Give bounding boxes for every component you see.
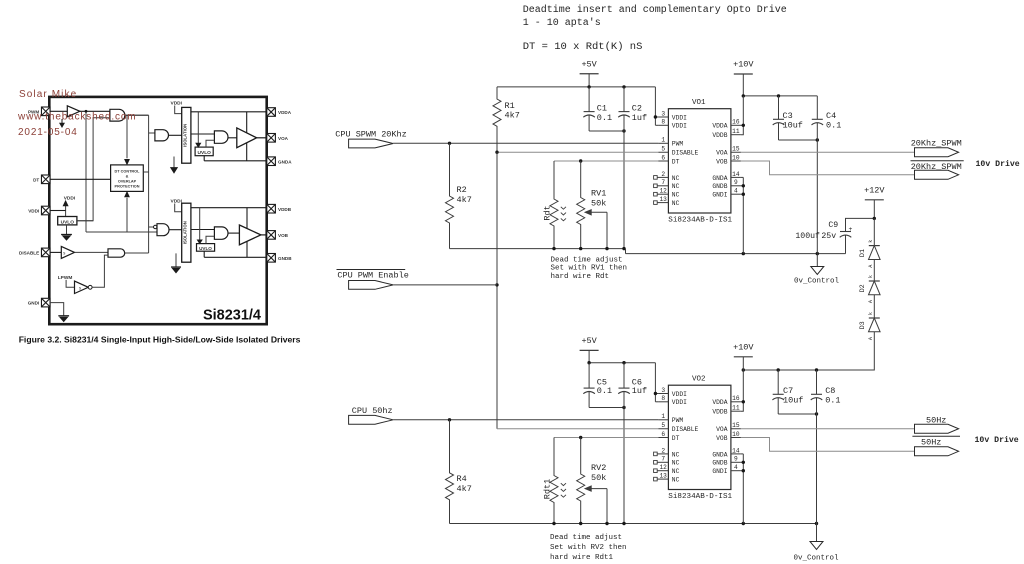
svg-text:Dead time adjust: Dead time adjust [550, 534, 622, 542]
svg-text:VDDA: VDDA [712, 123, 727, 130]
svg-text:VDDA: VDDA [278, 110, 292, 115]
gate B2 AND [214, 227, 239, 239]
wire VOB to output tag lower [741, 438, 915, 452]
inverter LPWM [66, 280, 92, 294]
wire D3 to +10V rail lower [742, 332, 875, 372]
wire UVLO B to gate B2 [206, 236, 214, 243]
svg-text:4k7: 4k7 [457, 484, 472, 494]
wire +12V to C9 [846, 217, 877, 228]
capacitor C6 1uf [618, 363, 647, 524]
svg-text:12: 12 [659, 188, 667, 195]
capacitor C7 10uf [772, 370, 803, 414]
note dead time adjust upper [551, 256, 628, 281]
svg-text:C9: C9 [828, 221, 838, 230]
svg-text:6: 6 [661, 431, 665, 438]
pin GNDA (figure right) [267, 157, 292, 166]
svg-text:NC: NC [672, 192, 680, 199]
wire CPU 50hz to PWM pin 1 lower [393, 418, 658, 421]
arrow into DT box top [125, 115, 130, 164]
resistor Rdt (dead time) [543, 161, 566, 249]
wire C8 to ground symbol lower [816, 524, 818, 542]
svg-text:DISABLE: DISABLE [19, 251, 39, 256]
svg-text:0.1: 0.1 [597, 113, 612, 123]
svg-text:VDDI: VDDI [672, 391, 687, 398]
svg-text:10: 10 [732, 154, 740, 161]
wire enable gate output [125, 252, 149, 254]
wire vertical bus to gates [149, 115, 155, 253]
svg-text:VDDB: VDDB [712, 132, 727, 139]
pin DISABLE (figure left) [19, 248, 50, 257]
svg-text:GNDB: GNDB [278, 256, 292, 261]
svg-text:D2: D2 [859, 284, 867, 292]
svg-text:2: 2 [661, 447, 665, 454]
svg-text:NC: NC [672, 460, 680, 467]
wire C1 bottom to C2 [589, 129, 626, 132]
datasheet figure Si8231/4 outer box [49, 97, 266, 324]
wire UVLO A to gate A2 [206, 140, 214, 147]
wire GNDB lower channel [204, 251, 267, 257]
pin PWM (figure left) [28, 107, 50, 116]
pin VDDA (figure right) [267, 108, 292, 117]
gate G2 enable AND [108, 249, 125, 257]
arrow rail to UVLO B [197, 208, 202, 244]
capacitor C4 0.1 [812, 96, 842, 254]
potentiometer RV1 50k [577, 161, 607, 249]
wire CPU PWM Enable to vertical [393, 284, 497, 286]
ground 0v_Control lower [793, 542, 839, 563]
UVLO box B [197, 244, 215, 252]
pin VOA (figure right) [267, 134, 289, 143]
ground symbol lower channel [171, 253, 181, 273]
net label CPU SPWM 20Khz [335, 129, 406, 148]
svg-text:Si8234AB-D-IS1: Si8234AB-D-IS1 [668, 493, 732, 501]
svg-text:hard wire Rdt1: hard wire Rdt1 [550, 554, 614, 562]
ground 0v_Control upper [794, 267, 840, 286]
label 10v Drive upper [976, 159, 1020, 169]
svg-text:hard wire Rdt: hard wire Rdt [551, 273, 610, 281]
capacitor C1 0.1 [583, 87, 612, 131]
svg-text:RV1: RV1 [591, 189, 606, 199]
svg-text:VDDI: VDDI [672, 399, 687, 406]
svg-text:GNDI: GNDI [28, 301, 39, 306]
svg-text:GNDI: GNDI [712, 468, 727, 475]
power +12V [864, 186, 885, 219]
isolation block A [182, 107, 191, 163]
wire C4 to ground symbol [816, 254, 818, 267]
svg-text:DT: DT [672, 435, 680, 442]
svg-text:0.1: 0.1 [597, 386, 612, 396]
svg-text:NC: NC [672, 477, 680, 484]
ground symbol GNDI [58, 316, 69, 322]
diode D1 [859, 218, 880, 267]
svg-text:D3: D3 [859, 321, 867, 329]
UVLO box A [195, 147, 213, 156]
svg-text:VOA: VOA [278, 136, 289, 141]
svg-text:NC: NC [672, 451, 680, 458]
arrow rail to UVLO A [196, 112, 201, 147]
svg-text:VDDB: VDDB [278, 207, 292, 212]
buffer U-in (PWM input) [67, 106, 80, 117]
svg-text:16: 16 [732, 395, 740, 402]
label VDDI lower channel [171, 198, 183, 211]
isolation block B [182, 203, 191, 262]
svg-text:0v_Control: 0v_Control [794, 277, 840, 285]
net label CPU PWM Enable [337, 270, 409, 290]
svg-text:Set with RV2 then: Set with RV2 then [550, 544, 627, 552]
svg-text:0v_Control: 0v_Control [793, 554, 839, 562]
gate B1 input AND with bubble [154, 224, 182, 236]
svg-text:5: 5 [661, 422, 665, 429]
DT control box [111, 165, 144, 192]
svg-text:VDDI: VDDI [28, 209, 39, 214]
svg-text:k: k [868, 312, 874, 315]
ground symbol below UVLO left [61, 225, 72, 240]
svg-text:Dead time adjust: Dead time adjust [551, 256, 623, 264]
svg-text:Solar Mike: Solar Mike [19, 89, 77, 100]
svg-text:12: 12 [659, 464, 667, 471]
op-amp VO2 Si8234AB-0-IS1 body [654, 376, 741, 501]
svg-text:15: 15 [732, 146, 740, 153]
rail VDDB lower channel [191, 207, 267, 209]
svg-text:CPU 50hz: CPU 50hz [352, 406, 393, 416]
svg-text:4k7: 4k7 [505, 111, 520, 121]
arrow into DT box bottom [125, 192, 130, 232]
wire +5V rail lower [587, 361, 655, 364]
svg-text:10v Drive: 10v Drive [976, 159, 1020, 169]
wire +10V to VDDA VDDB lower [741, 370, 745, 411]
svg-text:NC: NC [672, 183, 680, 190]
label 10v Drive lower [975, 435, 1019, 445]
svg-text:www.thebackshed.com: www.thebackshed.com [17, 112, 136, 123]
svg-text:VOA: VOA [716, 426, 728, 433]
svg-text:UVLO: UVLO [199, 246, 212, 251]
svg-text:+12V: +12V [864, 186, 885, 196]
svg-text:VDDI: VDDI [171, 198, 183, 204]
capacitor C8 0.1 [811, 370, 841, 524]
wire ground rail upper left [450, 247, 626, 254]
svg-text:+5V: +5V [581, 59, 597, 69]
pin GNDB (figure right) [267, 254, 292, 263]
svg-text:0.1: 0.1 [825, 396, 840, 406]
svg-text:10: 10 [732, 431, 740, 438]
pin VDDB (figure right) [267, 204, 292, 213]
svg-text:Figure 3.2. Si8231/4 Single-I: Figure 3.2. Si8231/4 Single-Input High-S… [19, 334, 301, 344]
buffer DISABLE input [50, 246, 75, 258]
svg-text:2: 2 [661, 171, 665, 178]
label Si8231/4 [203, 308, 261, 324]
svg-text:NC: NC [672, 175, 680, 182]
svg-text:2021-05-04: 2021-05-04 [18, 127, 78, 138]
wire buffer to gate G1 [80, 110, 110, 112]
svg-text:Si8234AB-D-IS1: Si8234AB-D-IS1 [668, 217, 732, 225]
svg-text:R2: R2 [457, 185, 467, 195]
svg-text:10uf: 10uf [783, 396, 803, 406]
svg-text:GNDA: GNDA [712, 451, 727, 458]
svg-text:8: 8 [661, 119, 665, 126]
svg-text:15: 15 [732, 422, 740, 429]
svg-text:C3: C3 [783, 111, 793, 121]
svg-text:GNDI: GNDI [712, 192, 727, 199]
pin GNDI (figure left) [28, 298, 50, 307]
pin DT (figure left) [33, 175, 50, 184]
wire vertical net B [77, 118, 110, 221]
svg-text:7: 7 [661, 456, 665, 463]
svg-text:DT: DT [33, 177, 39, 182]
wire DISABLE net lower [497, 428, 658, 430]
svg-text:13: 13 [659, 196, 667, 203]
net label 20Khz_SPWM inverted [911, 161, 964, 180]
svg-text:+5V: +5V [581, 336, 597, 346]
wire DT net upper [554, 159, 658, 162]
svg-text:OVERLAP: OVERLAP [118, 180, 137, 184]
rail VDDA upper channel [191, 111, 267, 113]
svg-text:100uf: 100uf [795, 231, 820, 241]
svg-text:3: 3 [661, 110, 665, 117]
wire DISABLE net upper [495, 151, 658, 154]
wire DT pin to DT control box [50, 178, 111, 180]
svg-text:DISABLE: DISABLE [672, 150, 699, 157]
wire isolation B to gate B2 [191, 229, 215, 231]
svg-text:5: 5 [661, 146, 665, 153]
svg-text:11: 11 [732, 405, 740, 412]
svg-text:VOB: VOB [278, 233, 289, 238]
wire DT net lower [554, 436, 658, 439]
wire VDDI supply to pins 3 and 8 lower [654, 363, 659, 402]
wire VOB output [261, 234, 267, 236]
wire gate G1 output [125, 114, 149, 116]
svg-text:PWM: PWM [672, 417, 684, 424]
capacitor C9 100uf 25v [795, 218, 852, 253]
wire VOB to output tag upper [741, 161, 915, 175]
svg-text:VOB: VOB [716, 158, 728, 165]
power +10V lower [733, 343, 754, 371]
svg-text:14: 14 [732, 447, 740, 454]
wire C3 bottom to C4 [779, 138, 820, 141]
svg-text:NC: NC [672, 200, 680, 207]
svg-text:4: 4 [734, 188, 738, 195]
svg-text:1uf: 1uf [632, 386, 647, 396]
wire C7 bottom to C8 [778, 412, 818, 415]
svg-text:UVLO: UVLO [198, 150, 212, 156]
potentiometer RV2 50k [577, 438, 607, 524]
wire VDDA VDDB junction upper [741, 124, 745, 135]
svg-text:DT = 10 x Rdt(K) nS: DT = 10 x Rdt(K) nS [523, 41, 643, 53]
wire VOA to output tag lower [741, 428, 915, 430]
wire PWM pin to buffer [50, 110, 67, 112]
svg-text:6: 6 [661, 154, 665, 161]
svg-text:25v: 25v [821, 232, 836, 241]
svg-text:R1: R1 [505, 101, 515, 111]
resistor Rdt1 (dead time) [543, 438, 566, 524]
svg-text:R4: R4 [457, 474, 467, 484]
svg-text:&: & [126, 175, 129, 179]
svg-text:VDDI: VDDI [171, 100, 183, 106]
svg-text:VOB: VOB [716, 435, 728, 442]
svg-text:D1: D1 [859, 249, 867, 257]
arrow marker below PWM wire [60, 119, 65, 127]
svg-text:VDDI: VDDI [672, 123, 687, 130]
svg-text:9: 9 [734, 179, 738, 186]
UVLO box left [58, 217, 77, 226]
svg-text:8: 8 [661, 395, 665, 402]
resistor R1 4k7 [493, 87, 520, 152]
svg-text:C4: C4 [826, 111, 836, 121]
svg-text:RV2: RV2 [591, 463, 606, 473]
svg-text:C7: C7 [783, 386, 793, 396]
svg-text:ISOLATION: ISOLATION [182, 124, 187, 147]
svg-text:3: 3 [661, 387, 665, 394]
svg-text:+10V: +10V [733, 343, 754, 353]
gate A1 input AND [155, 130, 182, 141]
svg-text:DT CONTROL: DT CONTROL [115, 170, 141, 174]
wire DT box right output [143, 171, 148, 173]
power +10V upper [733, 60, 754, 96]
label VDDI upper channel [171, 100, 183, 113]
svg-text:1uf: 1uf [632, 113, 647, 123]
figure caption [19, 334, 301, 344]
wire VOA output [257, 137, 267, 139]
svg-text:+10V: +10V [733, 60, 754, 70]
watermark Solar Mike [17, 89, 136, 138]
wire vertical net A [85, 110, 157, 232]
net label 50Hz [915, 416, 959, 434]
svg-text:DISABLE: DISABLE [672, 426, 699, 433]
ground arrow upper channel [171, 157, 178, 174]
svg-text:4: 4 [734, 464, 738, 471]
svg-text:PROTECTION: PROTECTION [115, 185, 140, 189]
capacitor C5 0.1 [583, 363, 612, 408]
svg-text:VDDI: VDDI [672, 114, 687, 121]
svg-text:Rdt: Rdt [543, 205, 553, 220]
svg-text:Rdt1: Rdt1 [543, 479, 553, 499]
wire ground rail lower [450, 522, 819, 525]
driver triangle B [239, 208, 261, 258]
svg-text:+: + [849, 226, 853, 233]
net label CPU 50hz [349, 406, 394, 424]
svg-text:1: 1 [661, 137, 665, 144]
svg-text:14: 14 [732, 171, 740, 178]
wire VOA to output tag upper [741, 151, 915, 153]
VDDI supply arrow left [50, 196, 76, 217]
pin VDDI (figure left) [28, 206, 50, 215]
wire C5 bottom to C6 [589, 406, 626, 409]
label LPWM [58, 275, 73, 281]
svg-text:VDDB: VDDB [712, 409, 727, 416]
svg-text:LPWM: LPWM [58, 275, 73, 281]
svg-text:10v Drive: 10v Drive [975, 435, 1019, 445]
svg-text:GNDB: GNDB [712, 183, 727, 190]
svg-text:VO1: VO1 [692, 99, 706, 107]
svg-text:13: 13 [659, 473, 667, 480]
svg-text:CPU SPWM 20Khz: CPU SPWM 20Khz [335, 129, 406, 139]
wire +10V rail upper [742, 94, 818, 125]
svg-text:50k: 50k [591, 199, 606, 209]
wire inverter to enable gate [92, 255, 108, 287]
note dead time adjust lower [550, 534, 627, 562]
wire ground net upper IC [741, 177, 745, 253]
svg-text:VO2: VO2 [692, 376, 706, 384]
capacitor C2 1uf [618, 87, 647, 249]
svg-text:GNDA: GNDA [278, 159, 292, 164]
svg-text:16: 16 [732, 119, 740, 126]
power +5V lower [580, 336, 599, 363]
wire GNDI to ground [50, 303, 64, 316]
svg-text:50k: 50k [591, 473, 606, 483]
svg-text:CPU PWM Enable: CPU PWM Enable [337, 270, 408, 280]
driver triangle A [237, 112, 257, 161]
svg-text:7: 7 [661, 179, 665, 186]
svg-text:DT: DT [672, 158, 680, 165]
title text [523, 4, 787, 53]
svg-text:11: 11 [732, 128, 740, 135]
net label 50Hz inverted [912, 436, 960, 456]
svg-text:GNDA: GNDA [712, 175, 727, 182]
wire CPU SPWM to PWM pin 1 [393, 142, 658, 145]
svg-text:4k7: 4k7 [457, 195, 472, 205]
resistor R4 4k7 [446, 420, 472, 524]
wire CPU PWM Enable vertical [495, 152, 498, 429]
svg-text:1 - 10 apta's: 1 - 10 apta's [523, 17, 601, 29]
svg-text:UVLO: UVLO [61, 219, 75, 225]
diode D2 [859, 260, 880, 304]
svg-text:9: 9 [734, 456, 738, 463]
svg-text:Si8231/4: Si8231/4 [203, 308, 261, 324]
svg-text:PWM: PWM [672, 141, 684, 148]
svg-text:GNDB: GNDB [712, 460, 727, 467]
svg-text:20Khz_SPWM: 20Khz_SPWM [911, 138, 962, 148]
wire +5V rail upper [497, 85, 655, 88]
svg-text:C8: C8 [825, 386, 835, 396]
gate G1 (PWM AND) [110, 109, 125, 121]
wire ground rail upper right [626, 252, 846, 255]
wire GNDA upper channel [204, 156, 267, 161]
pin VOB (figure right) [267, 231, 289, 240]
svg-text:k: k [868, 240, 874, 243]
svg-text:0.1: 0.1 [826, 121, 841, 131]
svg-text:Deadtime insert and complement: Deadtime insert and complementary Opto D… [523, 4, 787, 16]
svg-text:NC: NC [672, 468, 680, 475]
svg-text:k: k [868, 275, 874, 278]
wire isolation A to gate A2 [191, 133, 215, 135]
wire VDDI supply to pins 3 and 8 upper [654, 87, 659, 125]
wire buffer to enable gate [75, 251, 109, 253]
svg-text:50Hz: 50Hz [921, 438, 941, 448]
gate A2 AND [214, 131, 236, 143]
net label 20Khz_SPWM [911, 138, 962, 156]
wire ground net lower IC [741, 454, 745, 524]
svg-text:10uf: 10uf [783, 121, 803, 131]
svg-text:VDDA: VDDA [712, 399, 727, 406]
capacitor C3 10uf [773, 96, 803, 140]
diode D3 [859, 295, 880, 340]
svg-text:1: 1 [661, 413, 665, 420]
svg-text:ISOLATION: ISOLATION [182, 221, 187, 244]
power +5V upper [580, 59, 599, 86]
wire UVLO left output [77, 220, 93, 222]
resistor R2 4k7 [446, 143, 472, 248]
op-amp VO1 Si8234AB-0-IS1 body [654, 99, 741, 224]
svg-text:Set with RV1 then: Set with RV1 then [551, 265, 628, 273]
svg-text:VOA: VOA [716, 150, 728, 157]
